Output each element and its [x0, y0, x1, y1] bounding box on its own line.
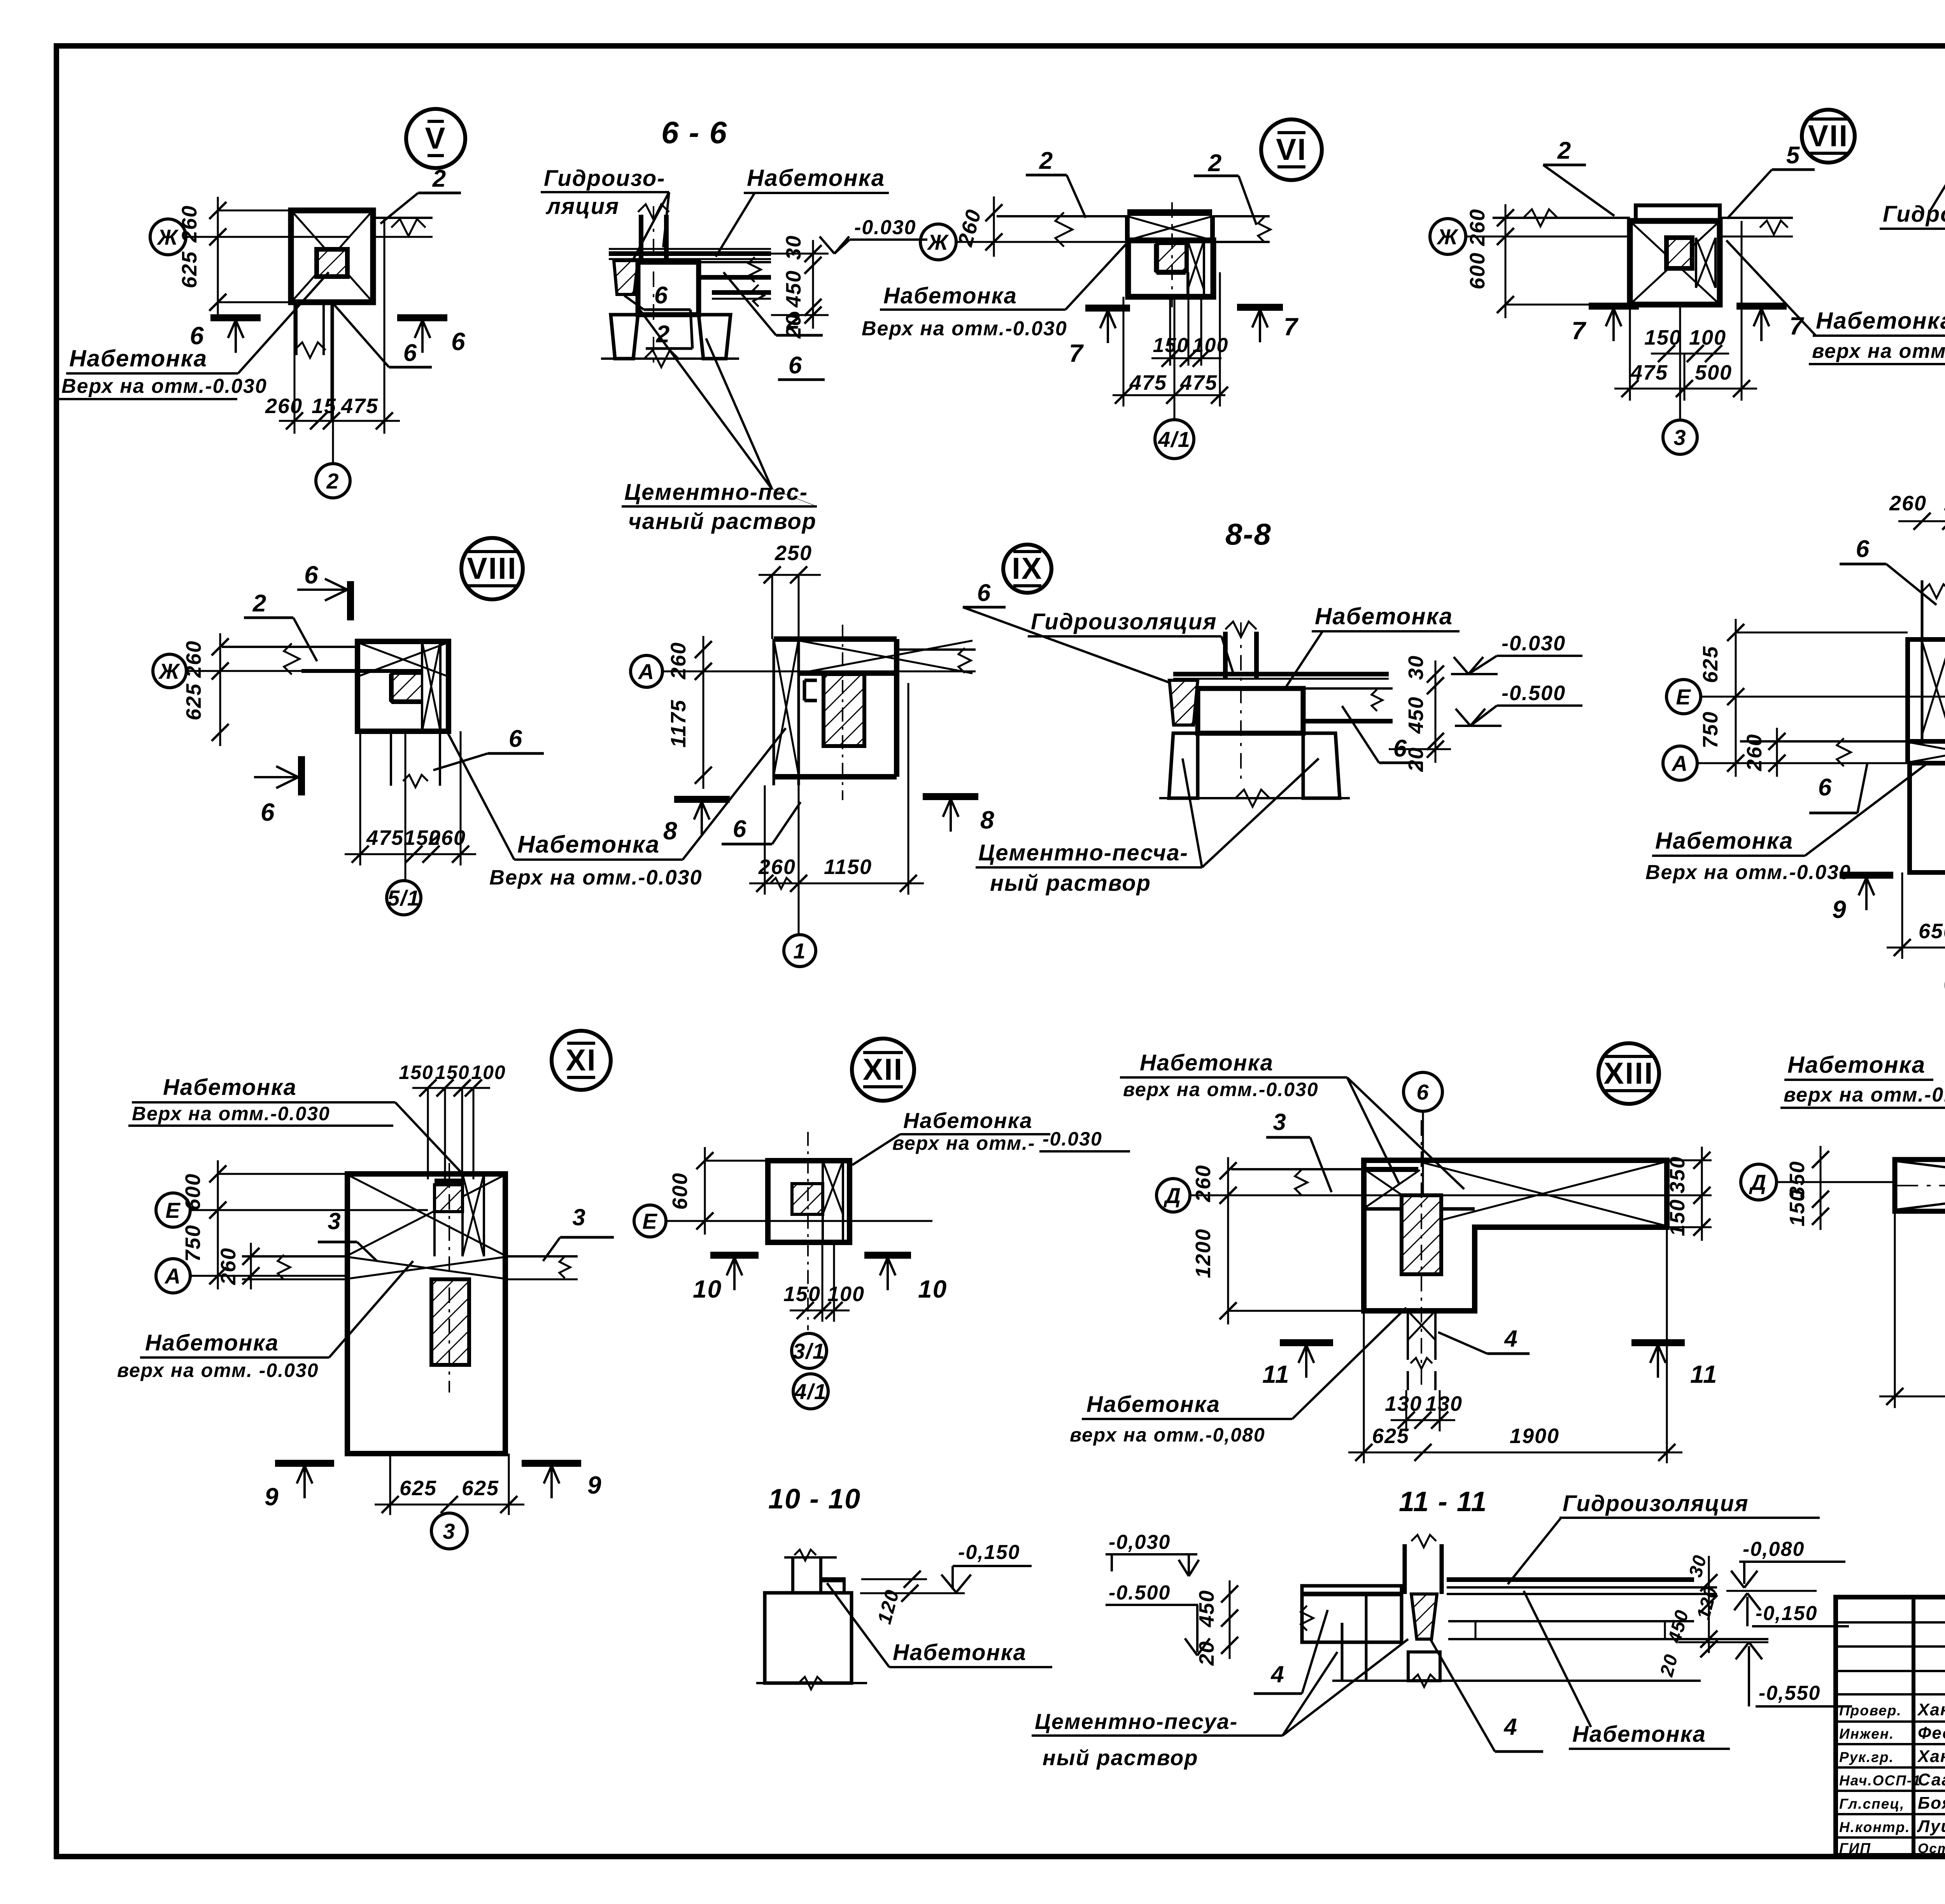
svg-text:Рук.гр.: Рук.гр.: [1839, 1749, 1894, 1765]
6-6 gidro wedge hatched: [614, 261, 638, 294]
node VII column hatched: [1666, 238, 1692, 268]
node XII hatched: [792, 1184, 823, 1214]
svg-text:475: 475: [1630, 361, 1668, 384]
node XIII dims 625 1900: [1348, 1452, 1682, 1454]
svg-text:6: 6: [403, 340, 417, 366]
svg-text:4: 4: [1270, 1661, 1284, 1687]
6-6 column: [639, 215, 643, 262]
svg-text:8-8: 8-8: [1225, 517, 1272, 551]
svg-text:625: 625: [1699, 646, 1722, 683]
svg-text:Набетонка: Набетонка: [145, 1330, 279, 1356]
node XI hatched top: [435, 1185, 463, 1212]
node IX marker circle (left of 8-8): [1003, 545, 1051, 593]
svg-text:20: 20: [1195, 1641, 1218, 1666]
svg-text:6: 6: [1818, 774, 1832, 801]
svg-text:625: 625: [1372, 1424, 1409, 1448]
svg-text:1: 1: [793, 939, 806, 963]
svg-text:Верх на отм.-0.030: Верх на отм.-0.030: [862, 317, 1067, 340]
node VI centerline: [1171, 202, 1173, 307]
svg-text:7: 7: [1572, 317, 1587, 345]
node XIII dim 260: [1227, 1157, 1229, 1209]
node IX dim 260: [703, 636, 704, 685]
11-11 left dims 450 20: [1229, 1580, 1231, 1659]
svg-text:750: 750: [181, 1224, 205, 1262]
svg-text:2: 2: [1557, 137, 1572, 164]
node XIII axis 6 circle: [1404, 1072, 1442, 1111]
svg-text:Инжен.: Инжен.: [1839, 1726, 1894, 1742]
6-6 floor slab right lower: [712, 290, 771, 295]
8-8 nabetonka right: [1303, 687, 1393, 690]
node IX column hatched: [824, 674, 864, 746]
node VIII plan block: [357, 641, 449, 731]
node VI marker circle: [1261, 119, 1322, 180]
node X axis A circle: [1663, 746, 1697, 780]
svg-text:XII: XII: [863, 1052, 903, 1086]
svg-text:6: 6: [509, 725, 523, 752]
svg-text:30: 30: [1404, 655, 1428, 680]
node XII x strip: [822, 1161, 824, 1242]
node X bottom dims 650 625: [1887, 947, 1945, 949]
svg-text:-0.030: -0.030: [1502, 632, 1566, 655]
svg-text:Набетонка: Набетонка: [1140, 1050, 1274, 1075]
11-11 left wall below: [1341, 1623, 1344, 1681]
svg-text:260: 260: [1192, 1165, 1215, 1202]
node XII axis circles 3/1 4/1: [792, 1333, 827, 1368]
svg-text:650: 650: [1919, 920, 1945, 943]
svg-text:625: 625: [400, 1477, 437, 1500]
6-6 legs: [611, 315, 638, 359]
svg-text:625: 625: [462, 1477, 499, 1500]
node VII axis circle 3: [1663, 420, 1697, 454]
svg-text:6: 6: [733, 816, 747, 843]
svg-text:4/1: 4/1: [794, 1379, 827, 1404]
node XII dims 150 100: [790, 1310, 850, 1312]
node XI axis circle 3: [431, 1513, 467, 1549]
node VIII bottom dims: [345, 853, 476, 855]
node IX dim 1175: [703, 658, 704, 789]
node X wall above: [1921, 580, 1924, 741]
node IX bottom dims: [749, 883, 924, 885]
svg-text:450: 450: [1404, 696, 1428, 734]
svg-text:2: 2: [432, 165, 447, 192]
node VIII walls below: [390, 731, 392, 786]
node XI dim 260: [250, 1243, 252, 1289]
svg-text:Набетонка: Набетонка: [517, 831, 660, 858]
node VII axis Ж: [1430, 219, 1466, 254]
node VI section marker 7 right: [1237, 304, 1283, 311]
svg-text:20: 20: [1404, 747, 1428, 772]
svg-text:260: 260: [178, 205, 201, 243]
node XII dim 600: [704, 1147, 706, 1235]
node XIII hatched column: [1402, 1195, 1441, 1274]
node XI bottom dims 625 625: [375, 1504, 524, 1506]
node VI axis circle 4/1: [1155, 420, 1194, 459]
svg-text:VI: VI: [1276, 132, 1307, 166]
svg-text:Осташевский: Осташевский: [1918, 1841, 1945, 1856]
svg-text:7: 7: [1284, 313, 1299, 341]
10-10 nabetonka ledge: [822, 1577, 844, 1582]
node VI section marker 7 left: [1085, 305, 1130, 312]
node VI x strip: [1186, 240, 1189, 297]
svg-text:Гидроизоляция: Гидроизоляция: [1883, 201, 1945, 227]
svg-text:Саакьянц: Саакьянц: [1918, 1770, 1945, 1789]
node XIII wall below: [1407, 1311, 1409, 1360]
svg-text:100: 100: [471, 1061, 506, 1083]
svg-text:А: А: [638, 659, 655, 684]
svg-text:Д: Д: [1163, 1183, 1181, 1208]
svg-text:130: 130: [1425, 1392, 1463, 1415]
8-8 slab: [1173, 672, 1389, 676]
10-10 foundation block: [765, 1593, 852, 1683]
svg-text:475: 475: [341, 394, 378, 418]
node VIII x strip: [421, 641, 423, 731]
svg-text:Набетонка: Набетонка: [883, 283, 1017, 308]
svg-text:Гл.спец,: Гл.спец,: [1839, 1796, 1905, 1812]
svg-text:А: А: [1671, 751, 1688, 776]
svg-text:-0.030: -0.030: [854, 216, 916, 239]
6-6 nabetonka right part: [699, 261, 771, 263]
6-6 ground line: [601, 357, 739, 360]
svg-text:475: 475: [1180, 371, 1218, 394]
node VI column hatched: [1156, 244, 1186, 272]
svg-text:-0,550: -0,550: [1759, 1682, 1821, 1704]
svg-text:450: 450: [1195, 1590, 1218, 1627]
svg-text:3: 3: [1673, 425, 1686, 450]
svg-text:Федотова: Федотова: [1918, 1724, 1945, 1743]
node XIII dims 130 130: [1391, 1419, 1455, 1421]
svg-text:Набетонка: Набетонка: [1816, 308, 1945, 334]
node VI upper band x-cross: [1125, 216, 1130, 240]
svg-text:-0,150: -0,150: [1756, 1602, 1817, 1625]
node V section marker 6 left: [210, 314, 261, 321]
node IX wall strip: [773, 639, 775, 785]
node VII dims 475 500: [1614, 388, 1757, 390]
svg-text:6: 6: [1856, 536, 1870, 562]
11-11 hatched wedge: [1411, 1594, 1437, 1639]
node IX axis A circle: [631, 655, 662, 687]
svg-text:2: 2: [326, 469, 339, 493]
8-8 ground line: [1159, 797, 1350, 799]
node V plan block: [291, 210, 373, 302]
node X lower block: [1910, 763, 1945, 872]
svg-text:30: 30: [782, 235, 805, 260]
svg-text:Луценко: Луценко: [1917, 1817, 1945, 1836]
svg-text:-0,030: -0,030: [1109, 1531, 1171, 1554]
node V section marker 6 right: [397, 314, 447, 321]
svg-text:Нач.ОСП-1: Нач.ОСП-1: [1839, 1773, 1921, 1788]
svg-text:750: 750: [1699, 711, 1722, 748]
svg-text:150: 150: [1786, 1189, 1809, 1226]
svg-text:150: 150: [1644, 326, 1682, 349]
svg-text:600: 600: [181, 1173, 205, 1210]
svg-text:9: 9: [1832, 895, 1847, 923]
svg-text:верх на отм.-: верх на отм.-: [892, 1132, 1036, 1154]
svg-text:2: 2: [1208, 150, 1222, 177]
svg-text:Ж: Ж: [156, 225, 179, 249]
node V axis line: [186, 236, 350, 238]
svg-text:ГИП: ГИП: [1839, 1840, 1871, 1856]
6-6 foundation block: [638, 262, 699, 315]
svg-text:верх на отм. -0.030: верх на отм. -0.030: [117, 1359, 319, 1381]
svg-text:-0,150: -0,150: [958, 1541, 1020, 1564]
svg-text:6: 6: [977, 580, 991, 606]
node X section markers 9: [1840, 872, 1893, 879]
svg-text:100: 100: [1193, 334, 1229, 357]
svg-text:V: V: [425, 121, 446, 155]
svg-text:ный раствор: ный раствор: [990, 871, 1151, 896]
svg-text:Цементно-песча-: Цементно-песча-: [978, 840, 1188, 865]
node VII nabetonka top strip: [1636, 205, 1720, 221]
svg-text:Набетонка: Набетонка: [163, 1075, 297, 1100]
node XI middle slab: [242, 1255, 347, 1258]
svg-text:260: 260: [217, 1247, 240, 1285]
svg-text:Набетонка: Набетонка: [1086, 1392, 1220, 1417]
svg-text:-0,080: -0,080: [1743, 1538, 1805, 1561]
svg-text:11 - 11: 11 - 11: [1399, 1486, 1487, 1517]
node IX section marker 8 right: [923, 793, 978, 800]
svg-text:260: 260: [265, 394, 303, 418]
svg-text:Е: Е: [642, 1209, 657, 1233]
svg-text:6: 6: [304, 561, 319, 589]
node XI section markers 9: [275, 1460, 334, 1467]
svg-text:8: 8: [663, 817, 678, 845]
node XIII axis D circle: [1156, 1179, 1190, 1212]
10-10 ground break: [756, 1682, 867, 1684]
node XI nabetonka bar top: [435, 1179, 463, 1185]
6-6 slab: [609, 251, 771, 256]
node XIV bottom dims 1900 2300: [1879, 1396, 1945, 1398]
node IX plan block: [774, 636, 897, 642]
svg-text:VIII: VIII: [467, 551, 517, 585]
node XII marker circle: [852, 1039, 914, 1101]
node XIII right dims 350 150: [1701, 1147, 1703, 1241]
svg-text:8: 8: [980, 806, 995, 834]
node VII dims 260 600: [1505, 204, 1507, 318]
8-8 foundation block: [1198, 688, 1303, 733]
node IX section marker 8 left: [674, 796, 730, 803]
11-11 pedestal block: [1408, 1652, 1440, 1681]
node VIII section marker 6 top: [347, 581, 354, 620]
node XIII marker circle: [1598, 1043, 1659, 1104]
node VIII section marker 6 bottom: [298, 756, 305, 795]
node VIII axis circle 5/1: [387, 881, 421, 915]
title block signature table: [1836, 1597, 1945, 1855]
svg-text:1200: 1200: [1192, 1228, 1215, 1278]
svg-text:5/1: 5/1: [387, 886, 420, 910]
node XI axis A circle: [156, 1259, 190, 1293]
svg-text:4: 4: [1504, 1326, 1518, 1352]
svg-text:4/1: 4/1: [1158, 427, 1191, 452]
svg-text:475: 475: [1129, 371, 1167, 394]
svg-text:ляция: ляция: [545, 194, 619, 219]
svg-text:Провер.: Провер.: [1839, 1703, 1902, 1718]
svg-text:9: 9: [587, 1471, 602, 1499]
svg-text:Ж: Ж: [927, 230, 949, 254]
svg-text:6: 6: [451, 328, 466, 356]
node XII axis E: [634, 1205, 666, 1237]
node VIII axis Zh circle: [153, 654, 186, 688]
svg-text:7: 7: [1069, 339, 1084, 367]
svg-text:3: 3: [572, 1204, 586, 1230]
11-11 ground line: [1332, 1680, 1701, 1682]
svg-text:625: 625: [178, 251, 201, 288]
node XI x strip: [461, 1174, 464, 1256]
svg-text:500: 500: [1695, 361, 1732, 384]
svg-text:6 - 6: 6 - 6: [661, 115, 727, 150]
svg-text:600: 600: [1466, 252, 1489, 289]
svg-text:Д: Д: [1749, 1170, 1767, 1195]
svg-text:IX: IX: [1012, 551, 1043, 585]
svg-text:ный раствор: ный раствор: [1043, 1745, 1199, 1770]
svg-text:Ж: Ж: [1436, 224, 1459, 249]
svg-text:6: 6: [1393, 735, 1407, 762]
svg-text:4: 4: [1503, 1714, 1517, 1740]
svg-text:Е: Е: [165, 1198, 180, 1223]
node VIII marker circle: [461, 538, 523, 599]
svg-text:Ханин: Ханин: [1917, 1747, 1945, 1766]
svg-text:-0.500: -0.500: [1109, 1582, 1171, 1604]
node X dim 260: [1776, 728, 1778, 777]
node VII dims 150 100: [1651, 353, 1729, 355]
svg-text:3: 3: [443, 1519, 456, 1543]
svg-text:1150: 1150: [824, 855, 872, 879]
svg-text:260: 260: [1889, 492, 1927, 515]
svg-text:6: 6: [261, 798, 275, 826]
node XIII plan L block: [1364, 1160, 1667, 1311]
svg-text:верх на отм.-0,080: верх на отм.-0,080: [1070, 1424, 1265, 1446]
node IX bracket mark: [803, 680, 806, 701]
node V slab lines right: [373, 217, 433, 219]
svg-text:600: 600: [668, 1172, 692, 1210]
svg-text:Гидроизоляция: Гидроизоляция: [1563, 1491, 1749, 1516]
11-11 main slab right: [1447, 1577, 1694, 1582]
node VIII slab: [222, 646, 357, 648]
svg-text:6: 6: [1416, 1080, 1429, 1104]
svg-text:150: 150: [783, 1282, 821, 1306]
node V vertical dim 260/625: [217, 197, 219, 316]
node VII marker circle: [1802, 110, 1855, 163]
node V bottom dims: [279, 420, 400, 422]
8-8 column: [1223, 632, 1228, 679]
node XIII nabetonka bar: [1367, 1167, 1418, 1172]
node VII slab: [1493, 217, 1630, 219]
svg-text:2: 2: [1039, 147, 1053, 174]
node VII section marker 7 left: [1589, 303, 1639, 310]
svg-text:Набетонка: Набетонка: [69, 345, 207, 371]
8-8 gidro wedge: [1169, 680, 1198, 725]
svg-text:475: 475: [366, 826, 404, 850]
11-11 column: [1403, 1544, 1407, 1594]
svg-text:260: 260: [1743, 734, 1766, 771]
svg-text:VII: VII: [1808, 119, 1849, 153]
svg-text:чаный раствор: чаный раствор: [628, 509, 817, 534]
node V axis circle 2 bottom: [316, 464, 350, 498]
svg-text:Верх на отм.-0.030: Верх на отм.-0.030: [132, 1103, 330, 1125]
node V axis Ж circle: [150, 219, 186, 255]
svg-text:Цементно-песуа-: Цементно-песуа-: [1035, 1709, 1238, 1734]
node V wall below: [295, 302, 298, 355]
svg-text:Набетонка: Набетонка: [1655, 828, 1793, 854]
svg-text:-0.500: -0.500: [1502, 681, 1566, 705]
node VI plan block: [1128, 240, 1213, 297]
svg-text:2: 2: [786, 307, 801, 334]
node XIII dim 1200: [1227, 1182, 1229, 1324]
svg-text:3: 3: [1273, 1109, 1286, 1135]
node VIII dims 260 625: [219, 633, 221, 746]
svg-text:Набетонка: Набетонка: [747, 165, 885, 191]
svg-text:260: 260: [1466, 208, 1489, 246]
11-11 right lower slab: [1448, 1620, 1694, 1622]
svg-text:100: 100: [1689, 326, 1726, 349]
svg-text:Набетонка: Набетонка: [1315, 603, 1453, 629]
svg-text:260: 260: [667, 642, 690, 680]
svg-text:10: 10: [693, 1275, 722, 1303]
node XI lower hatched: [431, 1279, 469, 1365]
svg-text:1175: 1175: [667, 699, 690, 748]
svg-text:Набетонка: Набетонка: [893, 1640, 1027, 1665]
svg-text:Н.контр.: Н.контр.: [1839, 1819, 1910, 1835]
svg-text:Ж: Ж: [158, 659, 180, 683]
svg-text:верх на отм.-0.030: верх на отм.-0.030: [1812, 340, 1945, 363]
node IX slab right: [897, 648, 976, 651]
node XIV dims 350 150: [1820, 1146, 1822, 1230]
svg-text:верх на отм.-0.030: верх на отм.-0.030: [1784, 1084, 1945, 1106]
10-10 column: [791, 1557, 794, 1593]
svg-text:3/1: 3/1: [793, 1339, 825, 1363]
svg-text:XI: XI: [566, 1043, 597, 1077]
svg-text:верх на отм.-0.030: верх на отм.-0.030: [1123, 1079, 1319, 1100]
svg-text:250: 250: [774, 541, 812, 565]
svg-text:130: 130: [1385, 1392, 1422, 1415]
svg-text:1900: 1900: [1510, 1424, 1560, 1448]
8-8 vertical dims: [1435, 660, 1437, 763]
node VI slab lines: [997, 215, 1127, 217]
node XI plan block: [347, 1174, 505, 1454]
node VII section marker 7 right: [1736, 303, 1787, 310]
svg-text:XIII: XIII: [1603, 1056, 1654, 1090]
svg-text:150: 150: [399, 1061, 433, 1083]
node X middle slab: [1740, 740, 1908, 743]
node VIII column hatched: [391, 674, 422, 702]
11-11 left nabetonka slab: [1302, 1586, 1402, 1642]
node XI dims 600 750: [217, 1160, 219, 1289]
node VI nabetonka top bar: [1127, 209, 1212, 216]
svg-text:Ханин: Ханин: [1917, 1700, 1945, 1719]
svg-text:11: 11: [1262, 1360, 1290, 1388]
svg-text:Верх на отм.-0.030: Верх на отм.-0.030: [1645, 861, 1851, 884]
node XIII slab left lines: [1231, 1168, 1364, 1170]
svg-text:3: 3: [328, 1208, 341, 1234]
svg-text:5: 5: [1786, 142, 1800, 169]
svg-text:100: 100: [827, 1282, 865, 1306]
8-8 legs: [1169, 733, 1198, 798]
node V column hatched: [317, 249, 347, 277]
svg-text:Набетонка: Набетонка: [903, 1108, 1033, 1133]
svg-text:11: 11: [1690, 1360, 1717, 1388]
svg-text:Е: Е: [1676, 685, 1691, 709]
svg-text:260: 260: [182, 640, 205, 678]
node X upper block: [1908, 639, 1945, 741]
node V marker circle: [406, 109, 465, 168]
node VI axis Zh circle: [920, 224, 956, 260]
node XIV slab: [1895, 1160, 1945, 1211]
node IX axis circle 1: [784, 935, 816, 967]
node XII section markers 10: [710, 1252, 759, 1259]
node VII plan block: [1630, 221, 1720, 305]
6-6 right vertical dims: [812, 240, 814, 329]
node X axis E circle: [1666, 680, 1701, 714]
svg-text:Набетонка: Набетонка: [1787, 1052, 1926, 1078]
